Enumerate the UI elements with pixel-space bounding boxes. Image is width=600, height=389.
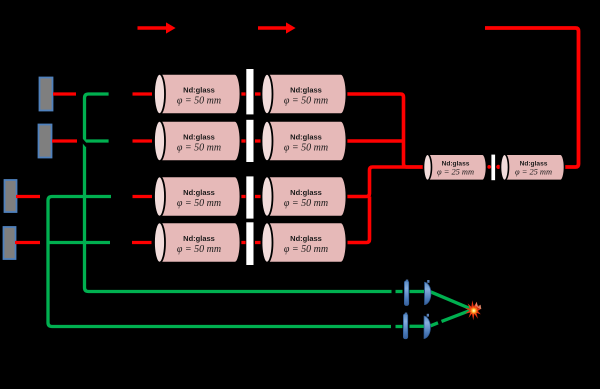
red beam dashes row2 <box>52 139 261 142</box>
amplifier A7 row4 col1 Nd:glass 50mm <box>154 222 241 262</box>
amplifier A3 row2 col1 Nd:glass 50mm <box>154 121 240 161</box>
svg-text:φ = 25 mm: φ = 25 mm <box>437 168 474 177</box>
amplifier B1 Nd:glass 25mm <box>424 154 487 180</box>
mirror M2 (gray rect row2) <box>39 125 52 158</box>
svg-text:φ = 50 mm: φ = 50 mm <box>284 96 328 107</box>
svg-text:φ = 50 mm: φ = 50 mm <box>284 244 328 255</box>
svg-text:φ = 50 mm: φ = 50 mm <box>284 198 328 209</box>
beam direction arrow 1 <box>138 22 176 33</box>
svg-text:φ = 50 mm: φ = 50 mm <box>177 244 221 255</box>
beam direction arrow 2 <box>258 22 296 33</box>
red route row3 joining <box>346 167 424 197</box>
svg-text:φ = 50 mm: φ = 50 mm <box>177 96 221 107</box>
green dashes before lenses <box>396 292 425 327</box>
svg-text:φ = 50 mm: φ = 50 mm <box>177 198 221 209</box>
red beam dashes row4 <box>15 241 261 244</box>
svg-text:Nd:glass: Nd:glass <box>520 160 548 167</box>
svg-text:φ = 50 mm: φ = 50 mm <box>284 143 328 154</box>
isolator bar row1 <box>246 69 253 114</box>
red output route (up and left) <box>485 28 579 167</box>
isolator bar row4 <box>246 222 253 265</box>
amplifier A5 row3 col1 Nd:glass 50mm <box>154 176 241 216</box>
green probe line V1: row1 stub, vertical, bottom horizontal to lens pair 1 <box>85 94 392 292</box>
lens L3 (thin plate) <box>403 313 407 339</box>
isolator bar row2 <box>246 120 253 162</box>
amplifier A2 row1 col2 Nd:glass 50mm <box>262 74 347 114</box>
svg-text:Nd:glass: Nd:glass <box>290 133 322 142</box>
isolator bar 25mm stage <box>491 155 495 181</box>
svg-text:Nd:glass: Nd:glass <box>183 86 215 95</box>
amplifier A1 row1 col1 Nd:glass 50mm <box>154 74 240 114</box>
svg-text:Nd:glass: Nd:glass <box>183 188 215 197</box>
red dashes at 25mm isolator <box>487 165 500 169</box>
lens L2 (plano-convex) <box>425 280 431 305</box>
junction break mark row2 <box>77 134 88 146</box>
svg-text:Nd:glass: Nd:glass <box>290 234 322 243</box>
green stub row2 <box>85 139 109 142</box>
mirror M3 (gray rect row3) <box>5 180 17 212</box>
amplifier B2 Nd:glass 25mm <box>501 154 565 180</box>
green stub row4 <box>48 241 110 244</box>
svg-text:Nd:glass: Nd:glass <box>442 160 470 167</box>
amplifier A8 row4 col2 Nd:glass 50mm <box>262 222 347 262</box>
green probe line V2: row3 stub, vertical, bottom horizontal to lens pair 2 <box>48 197 391 327</box>
red route row4 joining <box>348 197 370 243</box>
svg-text:φ = 25 mm: φ = 25 mm <box>515 168 552 177</box>
svg-text:Nd:glass: Nd:glass <box>290 86 322 95</box>
svg-text:Nd:glass: Nd:glass <box>183 234 215 243</box>
svg-text:Nd:glass: Nd:glass <box>183 133 215 142</box>
target focus starburst <box>465 300 482 320</box>
mirror M1 (gray rect row1) <box>40 78 53 111</box>
svg-text:Nd:glass: Nd:glass <box>290 188 322 197</box>
red route row2 joining <box>347 139 404 143</box>
red beam dashes row1 <box>53 92 261 95</box>
red beam dashes row3 <box>16 195 261 198</box>
green converging beams to focus <box>431 292 471 309</box>
amplifier A4 row2 col2 Nd:glass 50mm <box>262 121 347 161</box>
lens L4 (plano-convex) <box>424 314 430 339</box>
isolator bar row3 <box>246 176 253 218</box>
svg-text:φ = 50 mm: φ = 50 mm <box>177 143 221 154</box>
amplifier A6 row3 col2 Nd:glass 50mm <box>262 176 347 216</box>
lens L1 (thin plate) <box>404 280 408 306</box>
red route row1 to 25mm stage <box>344 94 424 167</box>
mirror M4 (gray rect row4) <box>4 227 16 259</box>
